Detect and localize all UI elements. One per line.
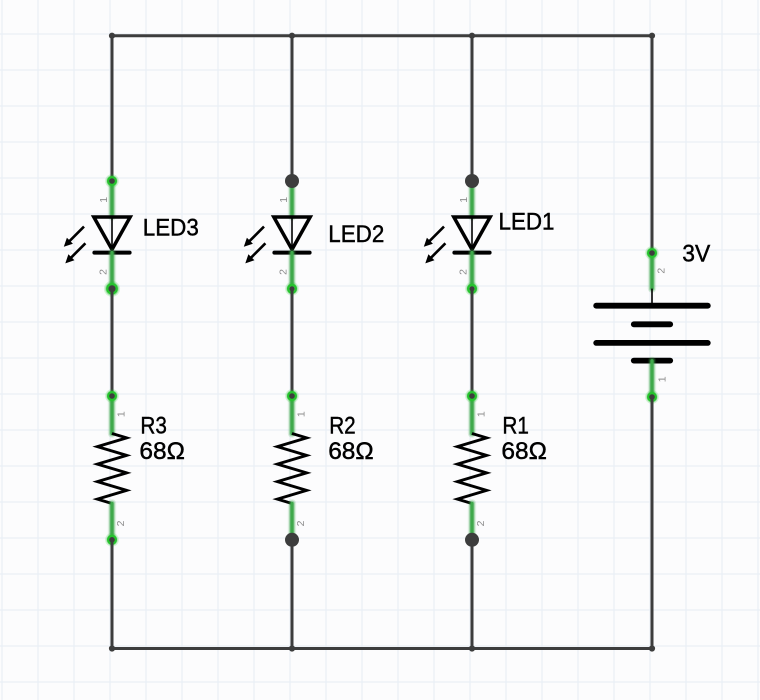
svg-text:2: 2	[115, 520, 127, 526]
wire: top rail to LED1 pin 1	[471, 36, 474, 181]
svg-text:2: 2	[458, 269, 470, 275]
svg-text:1: 1	[278, 197, 290, 203]
node: bottom junction R2 branch	[289, 645, 295, 651]
node: top junction LED1 branch	[469, 33, 475, 39]
svg-text:68Ω: 68Ω	[328, 438, 374, 465]
node: bottom-left corner	[109, 645, 115, 651]
LED LED3	[64, 182, 199, 289]
LED LED1	[424, 182, 555, 289]
node: wire bendpoint at LED2 pin 1	[285, 174, 299, 188]
node: LED3 pin 1 endpoint	[105, 174, 119, 188]
wire: top rail to LED2 pin 1	[291, 36, 294, 181]
svg-text:LED1: LED1	[499, 209, 555, 236]
wire: top rail	[112, 34, 652, 37]
node: LED1 pin 1 endpoint	[465, 174, 479, 188]
node: R3 pin 2 endpoint	[105, 533, 119, 547]
wire: R1 branch middle	[471, 289, 474, 396]
svg-text:R2: R2	[329, 413, 356, 440]
resistor R2 68ohm	[277, 397, 373, 540]
wire: top rail to LED3 pin 1	[111, 36, 114, 181]
svg-text:2: 2	[475, 520, 487, 526]
svg-text:2: 2	[98, 269, 110, 275]
wire: R2 to bottom rail	[291, 540, 294, 649]
node: LED2 pin 1 endpoint	[285, 174, 299, 188]
LED LED2	[244, 182, 384, 289]
wire: battery pin 1 to bottom rail	[651, 397, 654, 649]
svg-text:2: 2	[278, 269, 290, 275]
wire: bottom rail	[112, 647, 652, 650]
node: bottom junction R1 branch	[469, 645, 475, 651]
svg-text:1: 1	[458, 197, 470, 203]
svg-text:2: 2	[655, 268, 667, 274]
svg-text:1: 1	[98, 197, 110, 203]
svg-text:1: 1	[116, 411, 128, 417]
node: battery pin 2 endpoint	[645, 246, 659, 260]
resistor R1 68ohm	[457, 397, 547, 540]
node: wire bendpoint at LED1 pin 1	[465, 174, 479, 188]
svg-text:1: 1	[657, 376, 669, 382]
node: battery pin 1 endpoint	[645, 390, 659, 404]
wire: R2 branch middle	[291, 289, 294, 396]
node: R1 pin 2 endpoint	[465, 533, 479, 547]
node: bottom-right corner	[649, 645, 655, 651]
node: top-right corner	[649, 33, 655, 39]
node: top junction LED2 branch	[289, 33, 295, 39]
node: R2 pin 1 endpoint	[285, 389, 299, 403]
node: LED3 pin 2 endpoint	[104, 281, 120, 297]
svg-text:68Ω: 68Ω	[501, 438, 547, 465]
svg-text:R3: R3	[140, 413, 167, 440]
node: R2 pin 2 endpoint	[285, 533, 299, 547]
node: LED2 pin 2 endpoint	[285, 282, 299, 296]
svg-text:68Ω: 68Ω	[139, 438, 185, 465]
node: top-left corner	[109, 33, 115, 39]
svg-text:3V: 3V	[682, 240, 711, 267]
svg-text:2: 2	[295, 520, 307, 526]
svg-text:1: 1	[476, 411, 488, 417]
node: R3 pin 1 endpoint	[105, 389, 119, 403]
svg-text:1: 1	[296, 411, 308, 417]
svg-text:LED2: LED2	[328, 221, 384, 248]
wire: top rail to battery pin 2	[651, 36, 654, 253]
battery BAT1 3V	[596, 240, 711, 397]
node: LED1 pin 2 endpoint	[465, 282, 479, 296]
svg-text:R1: R1	[502, 413, 529, 440]
resistor R3 68ohm	[97, 397, 184, 540]
wire: R3 to bottom rail	[111, 540, 114, 649]
wire: R1 to bottom rail	[471, 540, 474, 649]
wire: R3 branch middle	[111, 289, 114, 396]
node: R1 pin 1 endpoint	[465, 389, 479, 403]
svg-text:LED3: LED3	[143, 215, 199, 242]
